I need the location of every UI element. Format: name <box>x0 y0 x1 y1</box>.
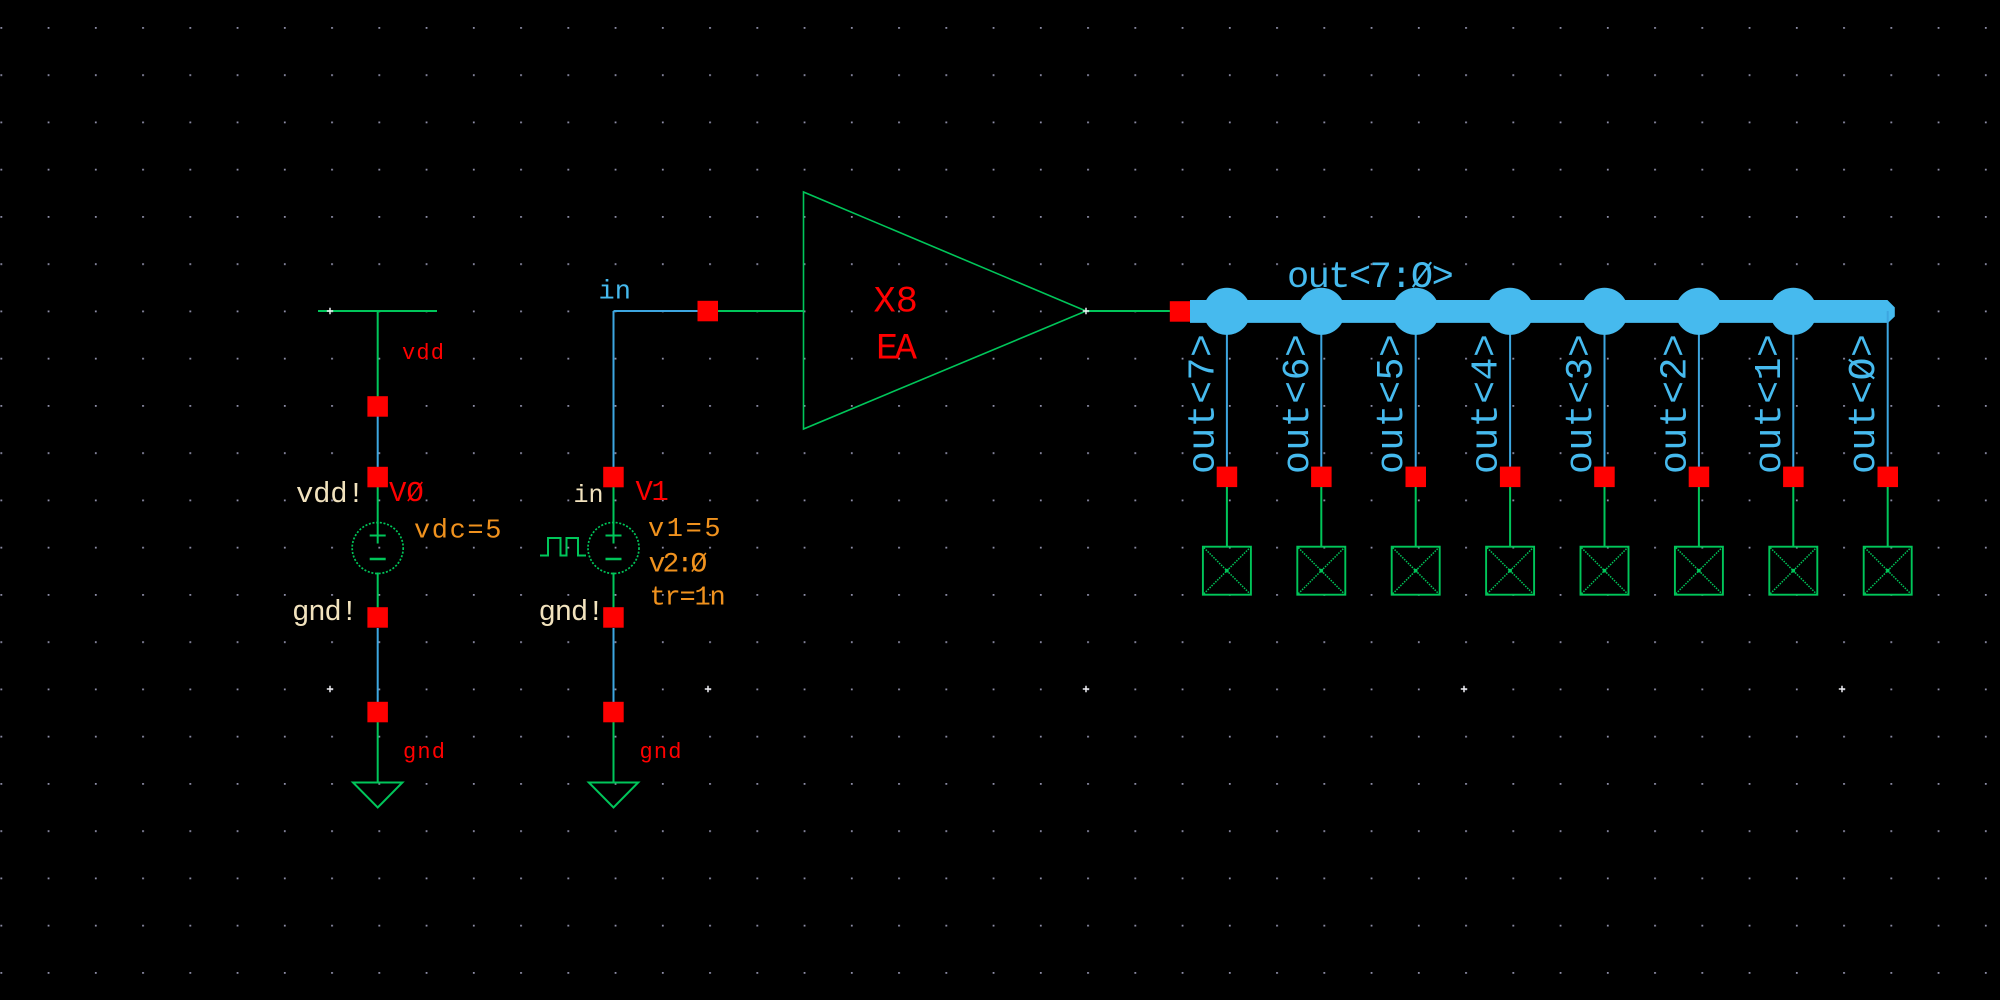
pin square V0 minus <box>367 607 388 628</box>
pin symbol out<7> <box>1203 547 1251 595</box>
vdd rail <box>318 310 437 312</box>
wire out<2> to pin <box>1698 487 1700 547</box>
pin symbol out<5> <box>1392 547 1440 595</box>
pin square gnd symbol (V1) <box>603 702 624 723</box>
svg-text:V1: V1 <box>636 476 668 509</box>
wire out<5> to pin <box>1415 487 1417 547</box>
wire tap out<6> <box>1320 311 1322 467</box>
wire tap out<2> <box>1698 311 1700 467</box>
pin square V0 plus <box>367 467 388 488</box>
svg-text:gnd!: gnd! <box>292 596 357 629</box>
svg-text:out<2>: out<2> <box>1654 334 1697 474</box>
wire out<3> to pin <box>1604 487 1606 547</box>
svg-text:v1=5: v1=5 <box>648 515 723 545</box>
wire vdd stub <box>377 311 379 397</box>
voltage source V0 <box>352 523 403 574</box>
svg-text:out<3>: out<3> <box>1560 334 1603 474</box>
svg-text:out<Ø>: out<Ø> <box>1843 334 1886 474</box>
junction dot out<1> <box>1770 288 1817 335</box>
wire tap out<7> <box>1226 311 1228 467</box>
pin square out<6> <box>1311 467 1332 488</box>
svg-text:vdc=5: vdc=5 <box>414 517 503 547</box>
pin square out<5> <box>1406 467 1427 488</box>
svg-text:in: in <box>599 278 631 308</box>
svg-text:gnd: gnd <box>640 740 683 765</box>
svg-text:vdd: vdd <box>402 341 445 366</box>
voltage source V1 <box>588 523 639 574</box>
svg-text:gnd: gnd <box>403 740 446 765</box>
wire out<0> to pin <box>1887 487 1889 547</box>
svg-text:tr=1n: tr=1n <box>650 584 725 614</box>
wire tap out<0> <box>1887 311 1889 467</box>
svg-text:vdd!: vdd! <box>296 478 364 511</box>
svg-text:X8: X8 <box>874 282 918 324</box>
pin symbol out<2> <box>1675 547 1723 595</box>
wire V1 minus lead <box>613 573 615 608</box>
wire out<6> to pin <box>1320 487 1322 547</box>
pin square out<1> <box>1783 467 1804 488</box>
junction dot out<5> <box>1392 288 1439 335</box>
junction dot out<3> <box>1581 288 1628 335</box>
wire tap out<5> <box>1415 311 1417 467</box>
wire tap out<1> <box>1792 311 1794 467</box>
ground symbol (vdd column) <box>353 783 402 808</box>
pin symbol out<0> <box>1864 547 1912 595</box>
pin square out<2> <box>1689 467 1710 488</box>
svg-text:out<7:Ø>: out<7:Ø> <box>1287 257 1453 299</box>
junction dot out<4> <box>1487 288 1534 335</box>
wire X8 output <box>1086 310 1170 312</box>
pin square out<0> <box>1878 467 1899 488</box>
svg-text:gnd!: gnd! <box>539 596 604 629</box>
svg-text:out<4>: out<4> <box>1466 334 1509 474</box>
svg-text:out<6>: out<6> <box>1277 334 1320 474</box>
pin symbol out<6> <box>1297 547 1345 595</box>
svg-text:out<5>: out<5> <box>1371 334 1414 474</box>
pin symbol out<1> <box>1769 547 1817 595</box>
pin square V1 plus <box>603 467 624 488</box>
wire tap out<4> <box>1509 311 1511 467</box>
pin symbol out<3> <box>1581 547 1629 595</box>
wire V0 to gnd (blue) <box>377 628 379 702</box>
wire V1 to gnd (blue) <box>613 628 615 702</box>
wire V1 plus lead <box>613 487 615 524</box>
svg-text:in: in <box>574 481 604 510</box>
wire net in vertical <box>613 311 615 468</box>
pin square vdd symbol <box>367 396 388 417</box>
wire net in horizontal <box>614 310 699 312</box>
junction square net in <box>698 301 719 322</box>
wire vdd to V0 plus (blue) <box>377 416 379 468</box>
wire tap out<3> <box>1604 311 1606 467</box>
wire in to X8 input <box>718 310 804 312</box>
op-amp buffer X8 <box>804 192 1087 429</box>
pin square out<7> <box>1217 467 1238 488</box>
pin square gnd symbol (V0) <box>367 702 388 723</box>
svg-text:EA: EA <box>876 329 918 371</box>
junction dot out<2> <box>1675 288 1722 335</box>
wire out<1> to pin <box>1792 487 1794 547</box>
wire gnd stub (V1) <box>613 722 615 783</box>
bus out<7:0> <box>1190 300 1895 323</box>
pin square V1 minus <box>603 607 624 628</box>
svg-text:v2:Ø: v2:Ø <box>649 550 707 581</box>
pin square out<4> <box>1500 467 1521 488</box>
junction dot out<6> <box>1298 288 1345 335</box>
pulse waveform glyph of V1 <box>540 538 586 556</box>
svg-text:VØ: VØ <box>389 477 424 510</box>
svg-text:out<1>: out<1> <box>1749 334 1792 474</box>
ground symbol (V1 column) <box>589 783 638 808</box>
wire V0 plus lead <box>377 487 379 524</box>
wire out<7> to pin <box>1226 487 1228 547</box>
junction square X8 output <box>1170 301 1191 322</box>
pin symbol out<4> <box>1486 547 1534 595</box>
svg-text:out<7>: out<7> <box>1182 334 1225 474</box>
pin square out<3> <box>1594 467 1615 488</box>
wire out<4> to pin <box>1509 487 1511 547</box>
junction dot out<7> <box>1203 288 1250 335</box>
wire V0 minus lead <box>377 573 379 608</box>
wire gnd stub <box>377 722 379 783</box>
